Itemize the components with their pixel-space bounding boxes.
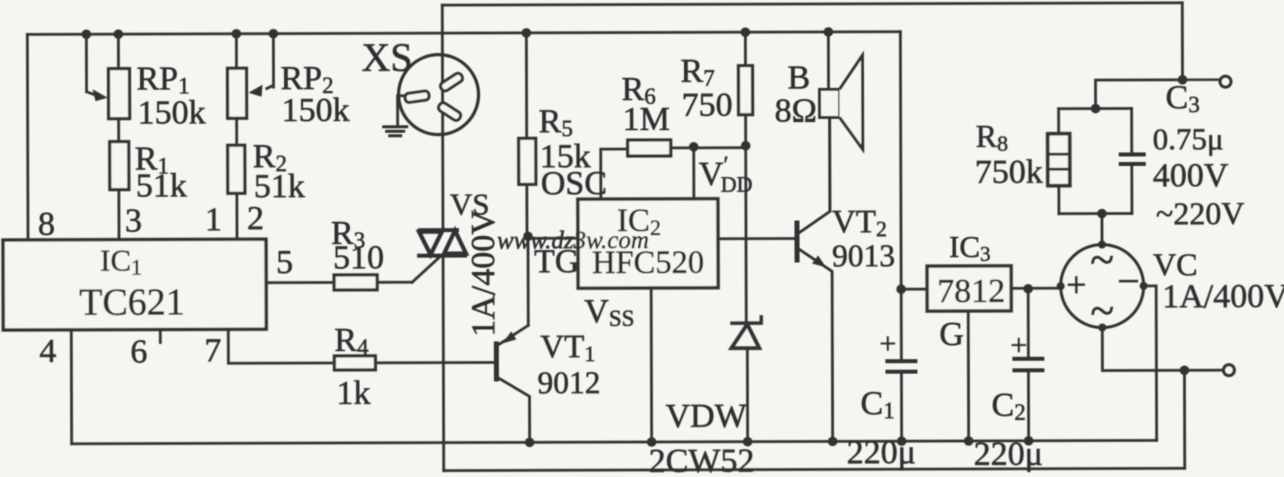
svg-text:~: ~ bbox=[1090, 236, 1114, 285]
svg-text:7: 7 bbox=[204, 332, 221, 369]
svg-text:+: + bbox=[879, 327, 896, 360]
svg-text:+: + bbox=[1010, 329, 1027, 362]
svg-text:8Ω: 8Ω bbox=[775, 92, 817, 129]
svg-text:4: 4 bbox=[39, 333, 56, 370]
svg-text:750: 750 bbox=[682, 87, 733, 124]
svg-text:6: 6 bbox=[130, 334, 147, 371]
svg-text:150k: 150k bbox=[282, 92, 350, 129]
svg-text:2: 2 bbox=[247, 200, 264, 237]
svg-text:1M: 1M bbox=[623, 101, 670, 138]
svg-text:2CW52: 2CW52 bbox=[649, 443, 755, 477]
svg-text:1A/400V: 1A/400V bbox=[1162, 278, 1284, 315]
svg-text:OSC: OSC bbox=[541, 165, 607, 202]
svg-text:www.dz3w.com: www.dz3w.com bbox=[497, 227, 649, 254]
svg-text:VDW: VDW bbox=[666, 398, 748, 435]
svg-text:1: 1 bbox=[205, 201, 222, 238]
svg-text:1k: 1k bbox=[336, 375, 370, 412]
svg-text:G: G bbox=[939, 316, 964, 353]
svg-text:51k: 51k bbox=[136, 167, 187, 204]
svg-text:+: + bbox=[1066, 265, 1086, 305]
svg-text:0.75μ: 0.75μ bbox=[1153, 121, 1224, 156]
svg-text:510: 510 bbox=[333, 239, 384, 276]
svg-text:150k: 150k bbox=[138, 94, 206, 131]
svg-text:TC621: TC621 bbox=[79, 281, 185, 323]
svg-text:XS: XS bbox=[361, 35, 412, 80]
svg-text:5: 5 bbox=[276, 244, 293, 281]
svg-text:8: 8 bbox=[38, 206, 55, 243]
svg-text:B: B bbox=[787, 59, 810, 96]
svg-text:9013: 9013 bbox=[832, 238, 895, 273]
svg-text:VC: VC bbox=[1153, 246, 1198, 282]
svg-text:7812: 7812 bbox=[937, 273, 1005, 310]
svg-text:~: ~ bbox=[1090, 287, 1114, 336]
svg-text:220μ: 220μ bbox=[974, 436, 1043, 473]
svg-text:220μ: 220μ bbox=[847, 434, 916, 471]
svg-text:400V: 400V bbox=[1153, 157, 1229, 194]
svg-text:750k: 750k bbox=[975, 154, 1043, 191]
svg-text:−: − bbox=[1117, 258, 1140, 303]
svg-text:3: 3 bbox=[125, 203, 142, 240]
svg-text:~220V: ~220V bbox=[1156, 195, 1245, 231]
svg-text:9012: 9012 bbox=[537, 365, 600, 400]
